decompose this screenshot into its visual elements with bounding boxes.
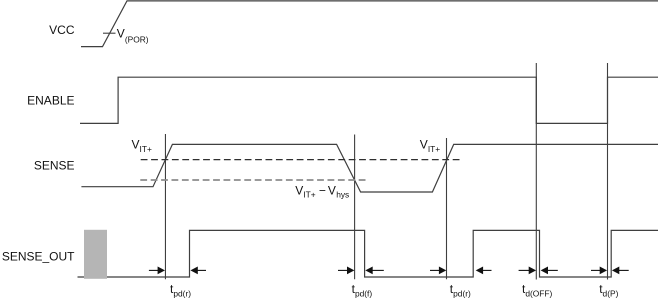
svg-text:−: − — [319, 183, 326, 197]
svg-text:VCC: VCC — [49, 23, 75, 37]
svg-text:SENSE_OUT: SENSE_OUT — [2, 249, 75, 263]
svg-text:SENSE: SENSE — [34, 158, 75, 172]
svg-text:V: V — [295, 183, 303, 197]
svg-text:hys: hys — [336, 190, 349, 200]
svg-text:ENABLE: ENABLE — [27, 94, 74, 108]
svg-text:V: V — [328, 183, 336, 197]
svg-text:IT+: IT+ — [303, 190, 315, 200]
